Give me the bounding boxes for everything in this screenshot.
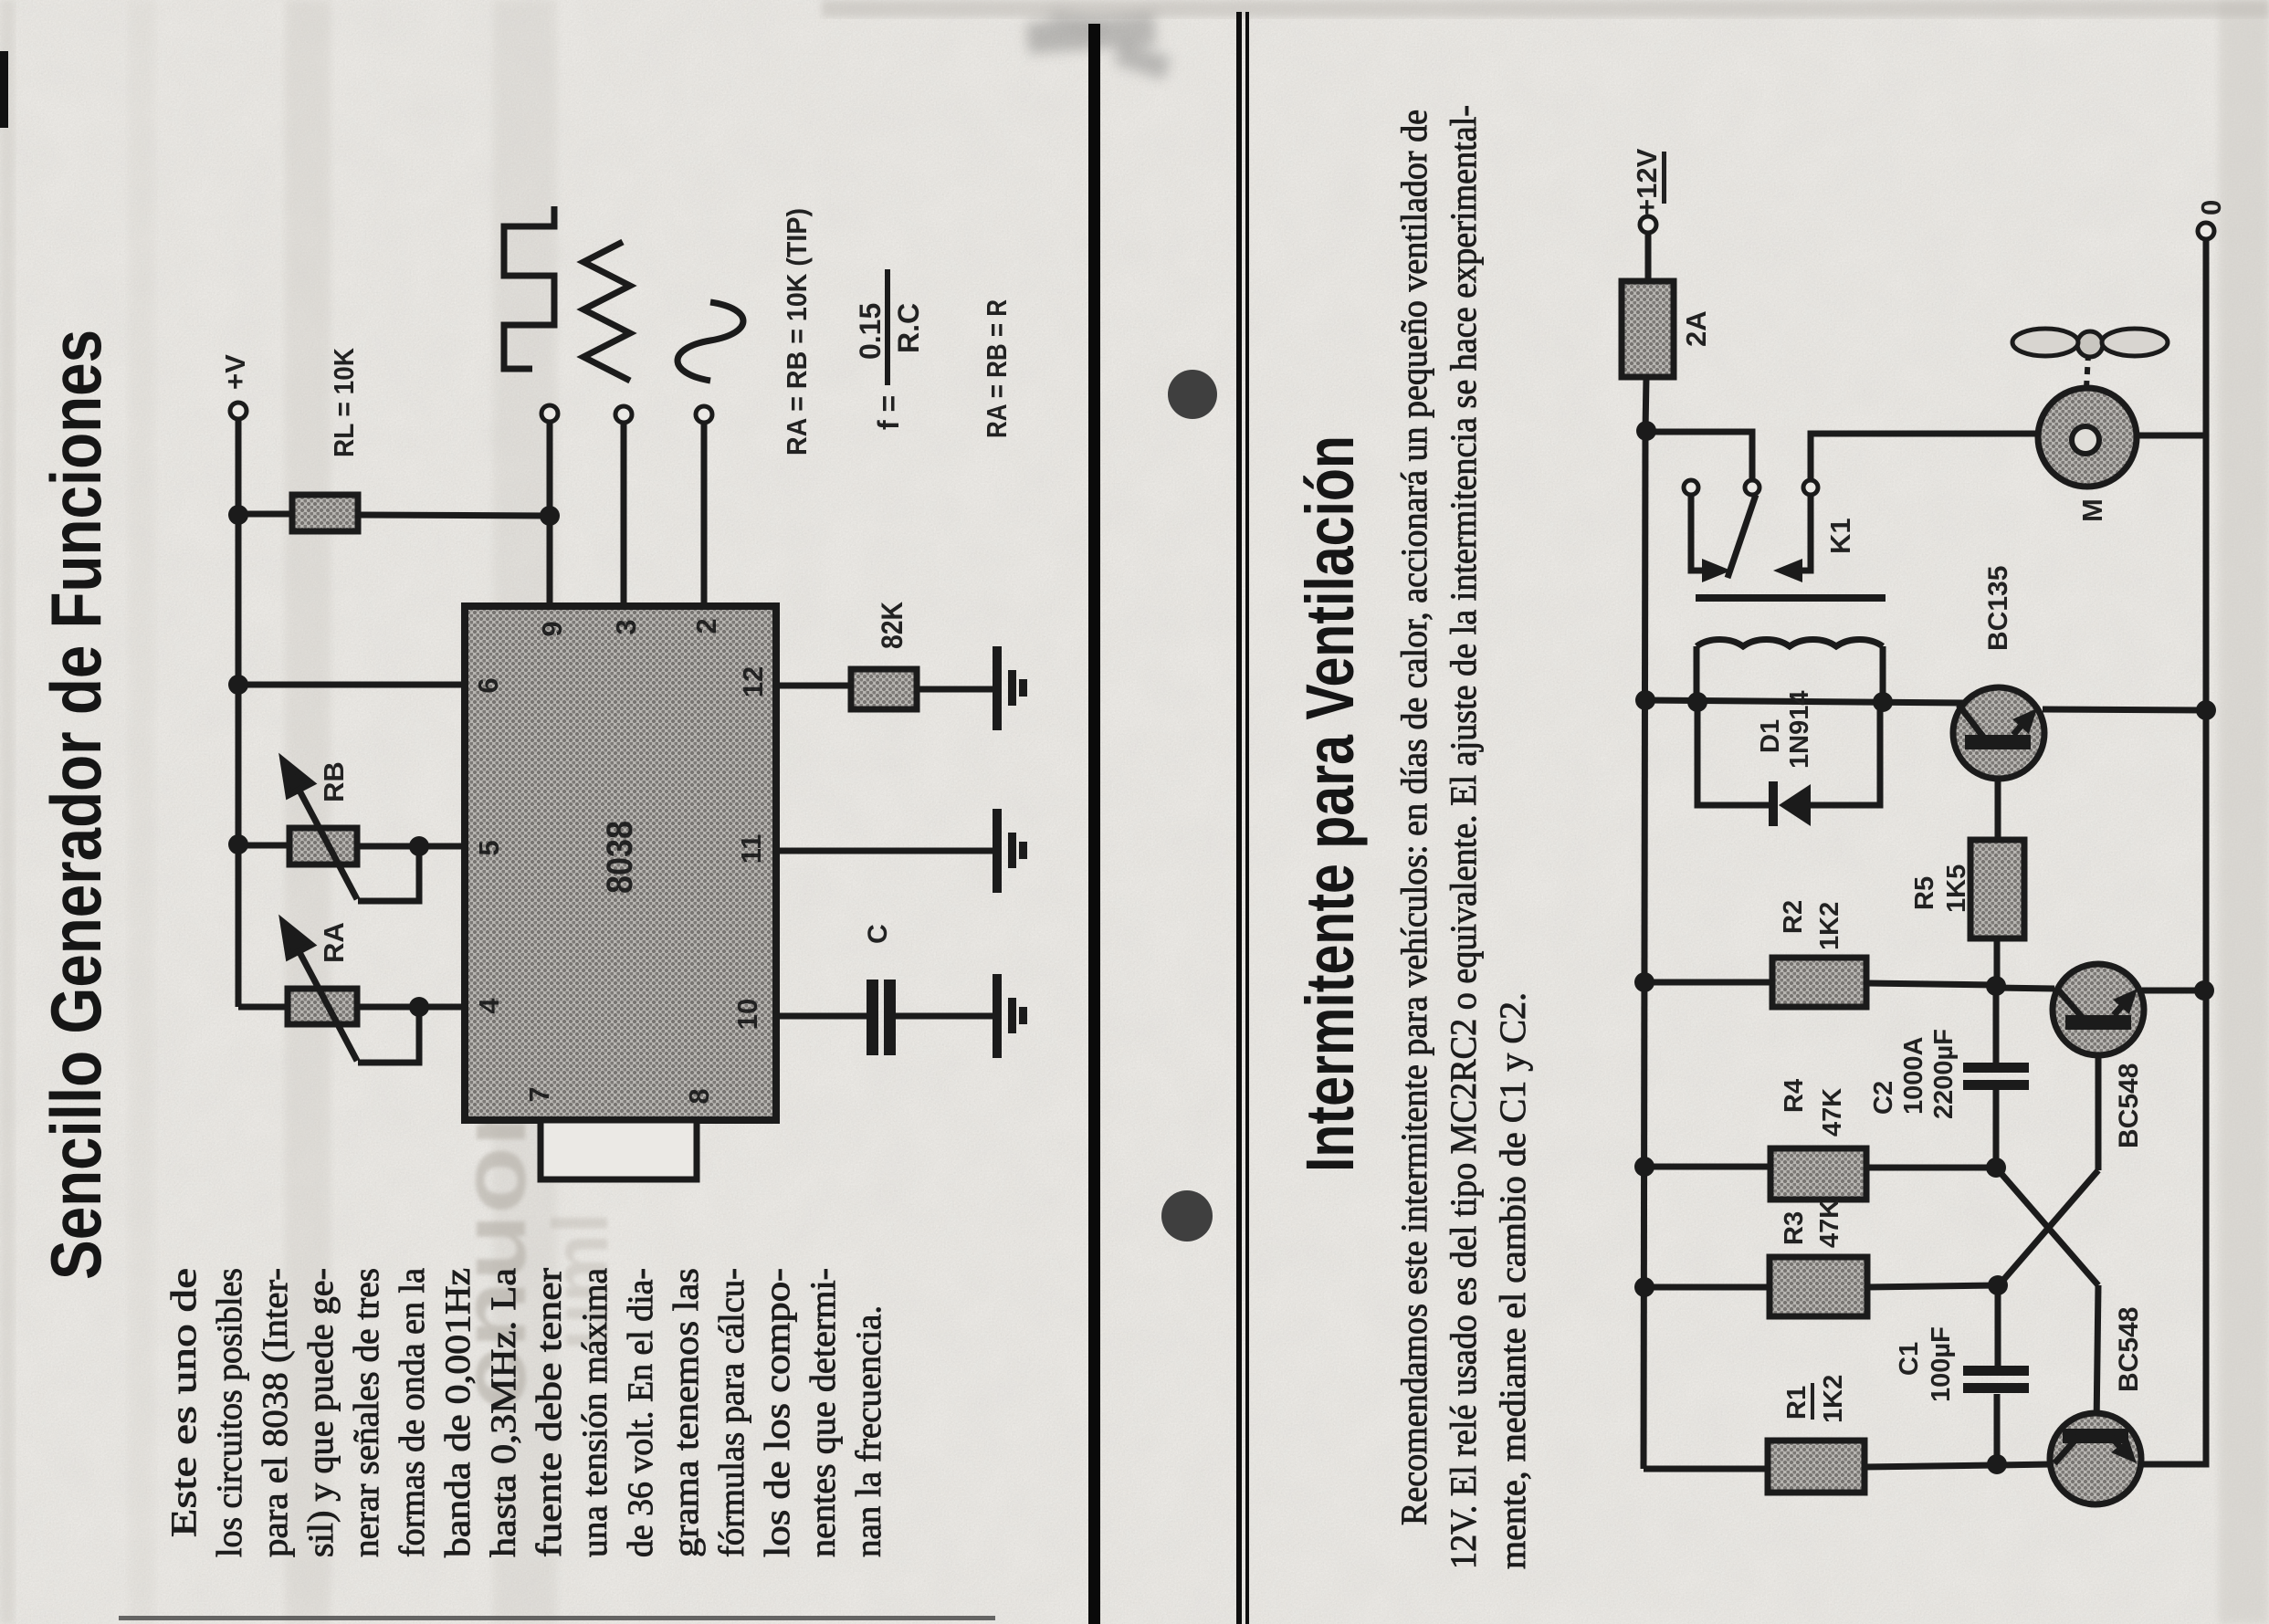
node BC548a emitter on 0V bbox=[2194, 980, 2214, 1001]
svg-text:12V. El relé usado es del tipo: 12V. El relé usado es del tipo MC2RC2 o … bbox=[1443, 105, 1484, 1569]
wire motor bottom to 0V rail bbox=[2137, 433, 2206, 439]
transistor Q2 BC548 top bbox=[2053, 964, 2144, 1055]
svg-text:los de los compo-: los de los compo- bbox=[758, 1268, 797, 1557]
svg-text:R5: R5 bbox=[1910, 876, 1939, 910]
junction dots article 2 bbox=[1634, 421, 2216, 1474]
wire coil-collector bus bbox=[1645, 700, 1965, 703]
wire relay common feed bbox=[1645, 432, 1752, 480]
waveform sine bbox=[678, 302, 743, 381]
wire RB feed bbox=[238, 843, 289, 849]
resistor R5 bbox=[1970, 840, 2024, 938]
node RA-pin4 bbox=[409, 997, 429, 1017]
svg-text:M: M bbox=[2076, 498, 2108, 522]
svg-text:+V: +V bbox=[219, 354, 251, 390]
svg-text:BC548: BC548 bbox=[2114, 1063, 2144, 1148]
resistor R1 bbox=[1768, 1441, 1865, 1493]
wire pin3 output bbox=[621, 423, 627, 606]
wire coil bottom stub bbox=[1880, 646, 1886, 703]
motor shaft dashed bbox=[2086, 355, 2088, 388]
svg-text:RA = RB = R: RA = RB = R bbox=[981, 299, 1013, 438]
svg-text:0: 0 bbox=[2195, 200, 2227, 215]
svg-text:6: 6 bbox=[472, 677, 504, 693]
potentiometer RB bbox=[289, 828, 357, 864]
svg-text:C1: C1 bbox=[1895, 1342, 1924, 1376]
node A R2-R5-C2 bbox=[1986, 976, 2006, 996]
paper shading bands bbox=[493, 0, 557, 1624]
terminal out sine bbox=[696, 406, 712, 423]
resistor 82K bbox=[851, 669, 917, 709]
relay switch arm bbox=[1728, 495, 1756, 578]
svg-text:2A: 2A bbox=[1680, 310, 1712, 347]
underline of +12V bbox=[1662, 152, 1666, 204]
svg-text:3: 3 bbox=[610, 619, 642, 634]
wire RA wiper loop bbox=[358, 1007, 419, 1063]
waveform square bbox=[504, 206, 554, 369]
svg-text:para el 8038 (Inter-: para el 8038 (Inter- bbox=[256, 1268, 295, 1557]
node RB-pin5 bbox=[409, 836, 429, 856]
ground for C bbox=[993, 974, 1027, 1058]
fan hub bbox=[2077, 331, 2103, 357]
svg-text:Intermitente para Ventilación: Intermitente para Ventilación bbox=[1292, 435, 1368, 1172]
bullet dot right bbox=[1168, 370, 1217, 419]
schematic 1 bbox=[230, 403, 993, 1063]
wire R1 feed corner bbox=[1644, 1466, 1768, 1472]
svg-text:R2: R2 bbox=[1779, 900, 1808, 934]
IC notch tab bbox=[541, 1120, 697, 1179]
wire +12V terminal to fuse bbox=[1645, 232, 1652, 281]
svg-text:RL = 10K: RL = 10K bbox=[328, 347, 360, 457]
resistor R4 bbox=[1770, 1148, 1866, 1200]
node rail-coil bus bbox=[1635, 690, 1655, 710]
svg-text:fuente debe tener: fuente debe tener bbox=[530, 1268, 569, 1557]
thick rule between articles bbox=[1088, 24, 1100, 1624]
svg-text:0.15: 0.15 bbox=[854, 303, 887, 360]
node J1 pin9 bbox=[540, 506, 560, 526]
svg-text:mente, mediante el cambio de C: mente, mediante el cambio de C1 y C2. bbox=[1492, 992, 1533, 1569]
node rail-pin6 bbox=[228, 675, 248, 695]
svg-text:RB: RB bbox=[318, 761, 350, 802]
svg-text:banda de 0,001Hz: banda de 0,001Hz bbox=[438, 1268, 478, 1557]
svg-text:8038: 8038 bbox=[600, 821, 640, 894]
svg-text:1K5: 1K5 bbox=[1942, 864, 1971, 913]
svg-text:de 36 volt. En el dia-: de 36 volt. En el dia- bbox=[621, 1268, 660, 1557]
scan scribble top right bbox=[1026, 10, 1171, 80]
wire diode cathode tap bbox=[1697, 703, 1769, 805]
underline of R1 bbox=[1811, 1383, 1814, 1420]
wire node A to C2 bbox=[1993, 987, 2000, 1063]
wire RB wiper loop bbox=[358, 846, 419, 901]
svg-text:RA: RA bbox=[318, 922, 350, 963]
svg-text:R.C: R.C bbox=[892, 303, 925, 353]
schematic 2 wires bbox=[1640, 216, 2214, 1469]
svg-text:RA = RB = 10K (TIP): RA = RB = 10K (TIP) bbox=[781, 208, 813, 456]
svg-text:los circuitos posibles: los circuitos posibles bbox=[210, 1268, 249, 1557]
svg-text:11: 11 bbox=[735, 834, 767, 864]
svg-text:fórmulas para cálcu-: fórmulas para cálcu- bbox=[712, 1268, 751, 1557]
terminal out square bbox=[541, 405, 558, 422]
resistor R3 bbox=[1770, 1257, 1867, 1316]
wire C1 to node D bbox=[1994, 1394, 2001, 1464]
diode D1 cathode bar bbox=[1769, 781, 1778, 826]
svg-text:R3: R3 bbox=[1780, 1211, 1809, 1245]
node rail-RB bbox=[228, 834, 248, 854]
node rail-RL bbox=[228, 505, 248, 525]
svg-text:nan la frecuencia.: nan la frecuencia. bbox=[849, 1305, 888, 1557]
wire NO contact upper bbox=[1811, 434, 2038, 480]
body paragraph article 1 bbox=[164, 1268, 888, 1557]
wire BC548b base bbox=[2096, 1285, 2098, 1427]
svg-text:R4: R4 bbox=[1780, 1079, 1809, 1113]
wire R3 to node C bbox=[1867, 1285, 1999, 1287]
relay K1 contacts bbox=[1684, 480, 1818, 495]
bullet dot left bbox=[1161, 1190, 1213, 1242]
resistor RL bbox=[292, 495, 358, 531]
svg-text:sil) y que puede ge-: sil) y que puede ge- bbox=[301, 1268, 341, 1557]
wire R3 feed bbox=[1644, 1284, 1770, 1291]
wire pin10 bbox=[776, 1013, 868, 1020]
svg-text:82K: 82K bbox=[876, 602, 909, 649]
fan blade upper bbox=[2012, 329, 2078, 356]
wire RA to node bbox=[357, 1004, 465, 1011]
svg-text:BC548: BC548 bbox=[2114, 1307, 2144, 1392]
relay NO arrow bbox=[1773, 559, 1802, 582]
contact NC circle bbox=[1684, 480, 1698, 495]
motor M body bbox=[2038, 388, 2137, 487]
relay coil K1 bbox=[1696, 639, 1883, 646]
wire coil top stub bbox=[1694, 646, 1700, 703]
wire BC548b emitter to 0V corner bbox=[2139, 239, 2206, 1464]
node D C1-R1 bbox=[1987, 1454, 2007, 1474]
svg-text:47K: 47K bbox=[1815, 1200, 1844, 1248]
node C R3-C1-cross bbox=[1988, 1275, 2008, 1295]
wire pin11 to ground bbox=[776, 848, 993, 854]
terminal +12V bbox=[1640, 216, 1656, 233]
wire BC135 emitter to 0V rail bbox=[2043, 709, 2206, 710]
wire pin2 output bbox=[701, 423, 708, 606]
node BC135 emitter on 0V bbox=[2196, 700, 2216, 720]
wire C2 to node B bbox=[1993, 1090, 2000, 1168]
svg-text:2: 2 bbox=[690, 618, 722, 634]
wire 82K to ground bbox=[917, 686, 993, 693]
wire capacitor C to ground bbox=[895, 1013, 993, 1020]
capacitor C plates bbox=[867, 980, 896, 1055]
wire cross diagonal A bbox=[1999, 1170, 2098, 1285]
wire R2 to node A bbox=[1866, 983, 1996, 985]
svg-text:formas de onda en la: formas de onda en la bbox=[393, 1268, 432, 1557]
+V rail wire bbox=[236, 418, 242, 1007]
node fuse-rail bbox=[1636, 421, 1656, 441]
wire pin6 bbox=[238, 682, 465, 688]
svg-text:C2: C2 bbox=[1869, 1081, 1898, 1115]
pin labels bbox=[472, 618, 769, 1104]
svg-text:C: C bbox=[863, 924, 893, 944]
transistor Q3 BC548 bottom bbox=[2050, 1413, 2141, 1504]
junction dots article 1 bbox=[228, 505, 560, 1017]
wire R4 feed bbox=[1644, 1164, 1770, 1170]
svg-text:Recomendamos este intermitente: Recomendamos este intermitente para vehí… bbox=[1393, 110, 1434, 1525]
svg-text:K1: K1 bbox=[1824, 518, 1856, 554]
wire R2 feed bbox=[1644, 980, 1772, 986]
wire R5 to BC135 base bbox=[1995, 749, 2001, 840]
node coil top bbox=[1687, 692, 1707, 712]
wire RL to node J1 bbox=[358, 515, 550, 516]
wire main +12V rail bbox=[1644, 431, 1645, 1469]
wire BC548a emitter to 0V rail bbox=[2142, 988, 2206, 994]
wire R4 to node B bbox=[1866, 1165, 1996, 1171]
svg-text:BC135: BC135 bbox=[1983, 566, 2013, 651]
wire fuse to rail node bbox=[1645, 377, 1646, 431]
RB wiper arrow bbox=[283, 760, 357, 899]
svg-text:hasta 0,3MHz. La: hasta 0,3MHz. La bbox=[484, 1268, 523, 1557]
double rule upper bbox=[1236, 12, 1242, 1624]
svg-text:47K: 47K bbox=[1818, 1088, 1847, 1137]
svg-text:R1: R1 bbox=[1782, 1386, 1812, 1420]
svg-text:Este es uno de: Este es uno de bbox=[164, 1268, 204, 1537]
wire NO contact lower bbox=[1795, 495, 1811, 571]
wire BC548a collector feed bbox=[1996, 988, 2054, 989]
IC U1 8038 bbox=[465, 606, 776, 1120]
svg-text:grama tenemos las: grama tenemos las bbox=[667, 1268, 706, 1557]
svg-text:+12V: +12V bbox=[1631, 148, 1663, 215]
wire BC548a base bbox=[2096, 1030, 2102, 1170]
scan edge: page left edge line bbox=[119, 1616, 995, 1620]
ground for 82K bbox=[993, 646, 1027, 730]
scan edge: top black bar bbox=[0, 51, 8, 128]
capacitor C2 plates bbox=[1963, 1063, 2029, 1090]
wire node C to C1 bbox=[1995, 1285, 2001, 1366]
ground for pin 11 bbox=[993, 809, 1027, 893]
svg-text:10: 10 bbox=[731, 999, 763, 1030]
relay armature bar bbox=[1696, 594, 1886, 602]
body paragraph article 2 bbox=[1393, 105, 1533, 1569]
wire pin9 output bbox=[547, 422, 553, 606]
double rule lower bbox=[1245, 12, 1249, 1624]
transistor Q1 BC135 bbox=[1953, 687, 2044, 779]
svg-text:9: 9 bbox=[536, 621, 568, 636]
relay NC arrow bbox=[1702, 559, 1731, 582]
svg-text:4: 4 bbox=[473, 998, 505, 1014]
wire cross diagonal B bbox=[1996, 1168, 2098, 1285]
formula f = 0.15 / R.C bbox=[854, 269, 925, 430]
node B C2-R4-cross bbox=[1986, 1158, 2006, 1178]
capacitor C1 plates bbox=[1963, 1366, 2029, 1393]
svg-text:1N914: 1N914 bbox=[1785, 691, 1814, 769]
wire RL feed bbox=[238, 511, 292, 518]
terminal out triangle bbox=[615, 406, 632, 423]
svg-text:Sencillo Generador de Funcione: Sencillo Generador de Funciones bbox=[36, 330, 116, 1280]
wire R1 to node D bbox=[1865, 1465, 1997, 1467]
wire RB to node bbox=[357, 843, 465, 850]
potentiometer RA bbox=[288, 989, 357, 1024]
svg-text:8: 8 bbox=[683, 1088, 715, 1104]
wire NC contact bbox=[1691, 495, 1709, 571]
svg-text:una tensión máxima: una tensión máxima bbox=[575, 1268, 615, 1557]
terminal +V bbox=[230, 403, 247, 419]
svg-text:5: 5 bbox=[473, 840, 505, 855]
waveform triangle bbox=[583, 242, 630, 381]
svg-text:D1: D1 bbox=[1756, 719, 1785, 753]
svg-text:7: 7 bbox=[523, 1086, 555, 1102]
svg-text:nerar señales de tres: nerar señales de tres bbox=[347, 1268, 386, 1557]
wire node A to R5 bbox=[1994, 938, 2001, 987]
fan blade lower bbox=[2102, 329, 2168, 356]
motor hub inner circle bbox=[2072, 426, 2099, 454]
node rail-R2 bbox=[1634, 972, 1654, 992]
wire node D to BC548b bbox=[1997, 1464, 2052, 1465]
wire pin12 bbox=[776, 683, 851, 689]
svg-text:1K2: 1K2 bbox=[1819, 1375, 1848, 1423]
fuse F1 2A bbox=[1622, 281, 1674, 377]
svg-text:2200µF: 2200µF bbox=[1929, 1029, 1959, 1119]
wire diode anode tap bbox=[1809, 704, 1880, 805]
svg-text:1K2: 1K2 bbox=[1815, 902, 1844, 950]
node rail-R3 bbox=[1634, 1277, 1654, 1297]
terminal 0V bbox=[2198, 223, 2214, 239]
svg-text:100µF: 100µF bbox=[1927, 1326, 1956, 1402]
contact common circle bbox=[1745, 480, 1760, 495]
node rail-R4 bbox=[1634, 1157, 1654, 1177]
RA wiper arrow bbox=[283, 922, 357, 1061]
node coil bottom bbox=[1873, 692, 1893, 712]
diode D1 triangle bbox=[1779, 784, 1811, 826]
wire RA feed corner bbox=[238, 1004, 288, 1011]
contact NO circle bbox=[1803, 480, 1818, 495]
svg-text:nentes que determi-: nentes que determi- bbox=[804, 1268, 843, 1557]
svg-text:1000A: 1000A bbox=[1899, 1036, 1928, 1115]
svg-text:12: 12 bbox=[737, 666, 769, 697]
resistor R2 bbox=[1772, 958, 1866, 1007]
svg-text:f =: f = bbox=[872, 395, 905, 430]
